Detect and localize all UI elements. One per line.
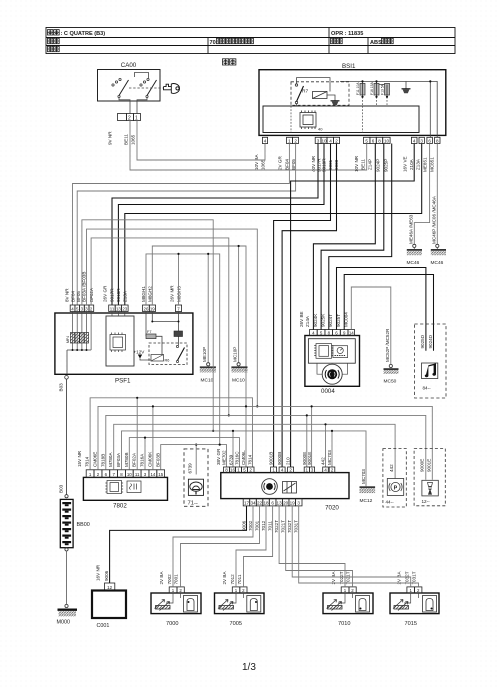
music note icon in 84 box xyxy=(422,363,438,379)
svg-text:40: 40 xyxy=(318,127,323,132)
svg-text:MC46: MC46 xyxy=(407,260,420,266)
svg-text:F16 15A: F16 15A xyxy=(370,81,374,95)
PSF1 fuse output bus xyxy=(67,350,91,374)
wire MC46P to ground MC46 xyxy=(436,144,438,245)
wire 9024T 0004 to 84 box xyxy=(337,268,426,351)
71 gauge icon xyxy=(188,479,203,495)
svg-text:ME10P: ME10P xyxy=(202,347,207,362)
svg-text:BSI1: BSI1 xyxy=(342,63,356,70)
svg-text:MC46P /MC06 /MC46A: MC46P /MC06 /MC46A xyxy=(431,195,436,244)
wire L1 CM06 net to 7020 xyxy=(152,246,246,467)
0004 gauge symbol xyxy=(333,346,348,358)
wire Z14P BSI to 0004 xyxy=(313,144,375,330)
svg-text:F13 5A: F13 5A xyxy=(381,83,385,95)
svg-text:M780B: M780B xyxy=(124,452,129,467)
svg-text:1065: 1065 xyxy=(131,134,136,145)
wire Z13A BSI to PSF1 xyxy=(125,144,422,306)
svg-text:10: 10 xyxy=(321,138,327,143)
svg-text:7031T: 7031T xyxy=(294,520,299,533)
svg-text:8: 8 xyxy=(378,138,381,143)
svg-text:210: 210 xyxy=(286,457,291,465)
wheel speed sensor 7015 xyxy=(390,593,439,614)
svg-text:6: 6 xyxy=(372,138,375,143)
wire MC004 0004 to MC50 ground xyxy=(351,287,391,364)
svg-text:MC851: MC851 xyxy=(430,157,435,172)
C001 connector box xyxy=(92,591,126,619)
svg-text:3: 3 xyxy=(317,138,320,143)
ground (R7) xyxy=(331,101,340,105)
svg-text:BB00: BB00 xyxy=(77,522,90,528)
svg-text:9006: 9006 xyxy=(104,570,109,581)
svg-text:7010: 7010 xyxy=(338,621,350,627)
svg-text:9017R: 9017R xyxy=(110,288,115,302)
R7 internal wires xyxy=(297,78,336,106)
MC50 ground xyxy=(384,328,399,385)
svg-text:Z13A: Z13A xyxy=(123,290,128,302)
wire BF03A PSF1 around to lower channel xyxy=(82,220,213,431)
svg-text:2V BA: 2V BA xyxy=(397,571,402,585)
7802 oscillator icon xyxy=(127,481,141,493)
svg-text:ME702: ME702 xyxy=(222,450,227,465)
svg-text:16: 16 xyxy=(230,468,236,473)
wire 1065 CA00 to BSI pin4 xyxy=(137,121,265,161)
svg-text:7022T: 7022T xyxy=(274,520,279,533)
svg-text:MC46: MC46 xyxy=(431,260,444,266)
wheel sensor wires 7032T/7031T to 7015 xyxy=(292,506,411,587)
wheel speed sensor 7000 xyxy=(151,593,201,614)
svg-text:MC12: MC12 xyxy=(360,498,373,504)
svg-text:3: 3 xyxy=(311,468,314,473)
wheel sensor wires 7012/7011 to 7005 xyxy=(236,506,266,587)
brake pad icon xyxy=(422,480,438,496)
svg-text:2: 2 xyxy=(331,468,334,473)
svg-text:11: 11 xyxy=(110,306,115,311)
svg-text:3: 3 xyxy=(297,501,300,506)
lower channel wire h7 ME702 xyxy=(161,445,227,470)
svg-text:MC52P /MC52R: MC52P /MC52R xyxy=(385,328,390,362)
svg-text:9001B: 9001B xyxy=(269,452,274,465)
0004 inner box xyxy=(308,339,355,364)
svg-text:11: 11 xyxy=(135,472,140,477)
svg-text:6739: 6739 xyxy=(228,454,233,465)
svg-text:2V BA: 2V BA xyxy=(159,571,164,585)
fuse F11 xyxy=(360,81,365,96)
svg-text:BF02A: BF02A xyxy=(132,452,137,467)
svg-text:4: 4 xyxy=(329,138,332,143)
key symbol xyxy=(164,84,180,94)
svg-text:BF05: BF05 xyxy=(76,291,81,302)
svg-text:7022T: 7022T xyxy=(339,571,344,584)
svg-text:34: 34 xyxy=(250,501,256,506)
svg-text:9024K: 9024K xyxy=(313,313,318,327)
svg-text:ABS: ABS xyxy=(370,40,382,46)
ground (BSI bus) xyxy=(402,89,411,93)
svg-text:7002: 7002 xyxy=(167,574,172,585)
svg-text:7005: 7005 xyxy=(230,621,242,627)
svg-text:70: 70 xyxy=(210,40,216,46)
svg-text:84--: 84-- xyxy=(423,386,432,391)
svg-text:44--: 44-- xyxy=(386,500,395,505)
svg-text:38V GR: 38V GR xyxy=(216,448,221,465)
svg-text:7032T: 7032T xyxy=(405,571,410,584)
svg-text:22: 22 xyxy=(257,501,263,506)
relay R6 dashed xyxy=(149,343,187,365)
PSF1 inner ECU box xyxy=(106,316,134,366)
svg-text:0004: 0004 xyxy=(321,388,335,395)
svg-text:17: 17 xyxy=(244,501,250,506)
svg-text:20: 20 xyxy=(283,501,289,506)
7020 bottom pins xyxy=(243,499,302,506)
svg-text:9024D: 9024D xyxy=(428,334,433,348)
svg-text:F7: F7 xyxy=(147,330,151,334)
svg-text:7816A: 7816A xyxy=(140,453,145,467)
svg-text:9025K: 9025K xyxy=(321,313,326,327)
svg-text:8: 8 xyxy=(436,138,439,143)
handbrake 44 dashed box xyxy=(383,449,406,507)
svg-text:5: 5 xyxy=(365,138,368,143)
svg-text:442: 442 xyxy=(321,457,326,465)
PSF1 engine fusebox xyxy=(55,313,193,374)
svg-text:7011: 7011 xyxy=(268,521,273,531)
svg-text:8V NR: 8V NR xyxy=(65,288,70,302)
svg-text:7802: 7802 xyxy=(113,503,127,510)
7020 ABS circle icon xyxy=(262,479,278,495)
wheel sensor wires 7002/7001 to 7000 xyxy=(173,506,253,587)
svg-text:1: 1 xyxy=(306,468,309,473)
svg-text:23: 23 xyxy=(122,306,127,311)
MC12 ground xyxy=(360,469,376,504)
BSI junction dots on bus xyxy=(361,80,431,98)
svg-text:1: 1 xyxy=(237,468,240,473)
0004 wire labels xyxy=(299,311,349,327)
BSI1 wire name labels xyxy=(254,153,435,172)
svg-text:9001E: 9001E xyxy=(307,452,312,465)
svg-text:71--: 71-- xyxy=(188,501,198,507)
wire 9001 BSI to 7020 xyxy=(274,144,331,468)
svg-text:6739: 6739 xyxy=(188,463,193,474)
svg-text:7011: 7011 xyxy=(237,574,242,584)
wire ME46A to ground MC46 xyxy=(414,144,429,245)
PSF1 top pins xyxy=(70,305,181,312)
7802 internal IC xyxy=(105,481,123,494)
svg-text:CM06L: CM06L xyxy=(241,450,246,465)
CA00 connector pins 2|1 xyxy=(118,114,141,121)
svg-text:442: 442 xyxy=(389,464,394,472)
svg-text:MC703: MC703 xyxy=(327,450,332,465)
parking brake icon xyxy=(387,479,403,496)
svg-text:9025D: 9025D xyxy=(420,334,425,348)
svg-text:14: 14 xyxy=(150,472,155,477)
R7 coil xyxy=(313,92,328,99)
svg-text:2V BA: 2V BA xyxy=(222,571,227,585)
svg-text:9018R: 9018R xyxy=(116,288,121,302)
0004 ABS logo circle xyxy=(322,364,342,384)
wire BF04 BSI to PSF1 xyxy=(73,144,290,306)
svg-text:10V NR: 10V NR xyxy=(354,155,359,172)
svg-text:7002: 7002 xyxy=(248,520,253,531)
7802 pins xyxy=(86,470,164,478)
svg-text:BF04: BF04 xyxy=(71,291,76,302)
svg-text:R7: R7 xyxy=(302,89,308,95)
wheel sensor wires 7022T/7021T to 7010 xyxy=(279,506,345,587)
svg-text:BE11: BE11 xyxy=(361,159,366,170)
BSI1 connector pins row xyxy=(262,137,440,143)
svg-text:MC10: MC10 xyxy=(201,378,214,384)
svg-text:7021T: 7021T xyxy=(281,520,286,533)
svg-text:BE11: BE11 xyxy=(124,134,129,145)
svg-text:26V BE: 26V BE xyxy=(299,311,304,327)
CA00 wire labels 9V NR / BE11 / 1065 xyxy=(108,131,136,145)
svg-text:9024T: 9024T xyxy=(328,314,333,327)
7802 wire labels xyxy=(77,450,160,467)
svg-text:10V BA: 10V BA xyxy=(254,153,259,170)
svg-text:2V GR: 2V GR xyxy=(278,156,283,170)
svg-text:7012: 7012 xyxy=(230,574,235,585)
svg-text:1/3: 1/3 xyxy=(242,662,256,673)
svg-text:7814: 7814 xyxy=(85,456,90,467)
ABS ECU 7020 xyxy=(221,473,349,499)
svg-text:10: 10 xyxy=(127,472,132,477)
svg-text:26: 26 xyxy=(144,306,149,311)
svg-text:2: 2 xyxy=(128,115,131,121)
PSF1 internal F7 circuit xyxy=(146,312,179,355)
BSI internal IC xyxy=(300,111,316,130)
svg-text:ME851: ME851 xyxy=(423,157,428,172)
svg-text:PSF1: PSF1 xyxy=(115,378,131,385)
7020 top wire labels xyxy=(216,448,332,465)
svg-text:14: 14 xyxy=(349,330,354,335)
fuse supply bus xyxy=(340,81,437,137)
wire BF05 BSI to PSF1 xyxy=(77,144,295,306)
wheel speed sensor 7005 xyxy=(215,593,265,614)
svg-text:C001: C001 xyxy=(97,623,110,629)
svg-text:1: 1 xyxy=(272,468,275,473)
svg-text:P: P xyxy=(394,485,398,491)
svg-text:7012: 7012 xyxy=(261,520,266,531)
svg-text:26V MR: 26V MR xyxy=(170,285,175,302)
wire BB00 to M000 xyxy=(66,551,68,604)
svg-text:CM06E: CM06E xyxy=(93,452,98,467)
relay R7 dashed box xyxy=(291,82,349,106)
svg-text:MC10: MC10 xyxy=(232,378,245,384)
svg-text:7814: 7814 xyxy=(248,454,253,465)
wire BE11 CA00 to BSI pin5 xyxy=(130,121,367,171)
svg-text:7021T: 7021T xyxy=(346,571,351,584)
svg-text:9006: 9006 xyxy=(242,520,247,531)
svg-text:Z13A: Z13A xyxy=(416,158,421,170)
wheel speed sensor 7010 xyxy=(323,593,373,614)
svg-text:MC50: MC50 xyxy=(384,379,397,385)
lower channel wire h3 to 12 box xyxy=(106,415,426,479)
dark component under pin7 xyxy=(174,331,183,337)
lower channel wire h2 CM06 to 12 box xyxy=(98,406,432,479)
svg-text:16V NR: 16V NR xyxy=(96,564,101,581)
7020 bottom wire labels xyxy=(242,520,299,533)
svg-text:CM06K: CM06K xyxy=(147,451,152,467)
svg-text:26V GR: 26V GR xyxy=(103,285,108,302)
svg-text:19: 19 xyxy=(290,501,296,506)
svg-text:1: 1 xyxy=(135,115,138,121)
svg-text:Z14A: Z14A xyxy=(305,315,310,327)
svg-text:9000E: 9000E xyxy=(420,459,425,472)
wire 9006 7020 to C001 xyxy=(110,506,247,583)
svg-text:4: 4 xyxy=(264,138,267,143)
instrument cluster 0004 xyxy=(305,336,360,387)
svg-text:13: 13 xyxy=(277,501,283,506)
svg-text:B03: B03 xyxy=(59,383,64,392)
MC46 ground right xyxy=(431,195,447,266)
svg-text:M8GH1: M8GH1 xyxy=(141,286,146,302)
svg-text:BF03A: BF03A xyxy=(116,452,121,467)
svg-text:40V NR: 40V NR xyxy=(311,155,316,172)
svg-text:MC10P: MC10P xyxy=(233,347,238,362)
battery junction BB00 xyxy=(65,495,68,498)
svg-text:1065: 1065 xyxy=(261,159,266,170)
wire 9025T 0004 to 84 box xyxy=(344,275,433,351)
svg-text:12--: 12-- xyxy=(422,499,431,504)
7020 top pins xyxy=(224,467,335,473)
svg-text:9001E: 9001E xyxy=(427,459,432,472)
svg-text:7015: 7015 xyxy=(405,621,417,627)
svg-text:19: 19 xyxy=(150,306,155,311)
svg-text:2: 2 xyxy=(335,138,338,143)
CA00 switch contacts xyxy=(112,78,149,97)
svg-text:2: 2 xyxy=(294,138,297,143)
svg-text:16V VE: 16V VE xyxy=(403,156,408,172)
svg-text:Z14P: Z14P xyxy=(368,159,373,170)
MC10 ground left xyxy=(200,347,216,384)
svg-text:10: 10 xyxy=(384,138,390,143)
svg-text:MF4: MF4 xyxy=(66,336,70,343)
svg-text:1: 1 xyxy=(288,138,291,143)
fuse F16 xyxy=(374,81,379,96)
wire BF03B PSF1 around to lower channel xyxy=(87,229,258,406)
PSF1 bottom exit to B03/BB00 xyxy=(65,376,69,380)
wire 9025P BSI to 0004 xyxy=(329,144,392,330)
svg-text:R6: R6 xyxy=(165,359,170,363)
svg-text:BF03B: BF03B xyxy=(155,453,160,467)
amplifier 84 dashed box xyxy=(415,324,447,398)
svg-text:7032T: 7032T xyxy=(287,520,292,533)
svg-text:BF04: BF04 xyxy=(285,159,290,170)
MC10 ground right xyxy=(231,347,247,384)
7020 connector icon xyxy=(283,482,297,494)
svg-text:18: 18 xyxy=(263,501,269,506)
svg-text:7816C: 7816C xyxy=(235,451,240,465)
svg-text:: C QUATRE (B3): : C QUATRE (B3) xyxy=(61,31,106,37)
0004 IC symbol xyxy=(314,344,333,359)
svg-text:OPR : 11835: OPR : 11835 xyxy=(331,31,363,37)
R7 switch xyxy=(295,84,297,104)
svg-text:4: 4 xyxy=(413,138,416,143)
svg-text:2: 2 xyxy=(249,468,252,473)
PSF1 wire labels xyxy=(65,272,182,302)
svg-text:7031T: 7031T xyxy=(411,571,416,584)
svg-text:M780A: M780A xyxy=(108,452,113,467)
lower channel wire h4 442 to 44 box xyxy=(114,424,395,478)
svg-text:M000: M000 xyxy=(57,620,71,626)
svg-text:4: 4 xyxy=(281,468,284,473)
svg-text:M8GH3: M8GH3 xyxy=(177,286,182,302)
ECU 7802 xyxy=(83,477,167,500)
svg-text:15: 15 xyxy=(158,472,163,477)
svg-text:8: 8 xyxy=(225,468,228,473)
svg-text:7818B: 7818B xyxy=(100,454,105,467)
lower channel wire h1 7814 xyxy=(90,398,252,470)
MC46 ground left xyxy=(407,214,423,266)
svg-text:+12V: +12V xyxy=(134,350,146,355)
wire BF02A PSF1 around to lower channel xyxy=(91,238,229,416)
svg-text:7001: 7001 xyxy=(174,574,179,585)
svg-text:MC703: MC703 xyxy=(361,469,366,484)
svg-text:5: 5 xyxy=(243,468,246,473)
dashed link to key xyxy=(129,87,164,89)
C001 pin xyxy=(105,583,115,591)
brake wear 12 dashed box xyxy=(414,449,445,506)
svg-text:M8GH2: M8GH2 xyxy=(148,286,153,302)
svg-text:2: 2 xyxy=(289,468,292,473)
fuse F13 xyxy=(385,83,390,96)
svg-text:7000: 7000 xyxy=(166,621,178,627)
wire 9018R BSI to PSF1 xyxy=(118,144,324,306)
svg-text:7020: 7020 xyxy=(325,505,339,512)
svg-text:13: 13 xyxy=(116,306,121,311)
svg-text:7001: 7001 xyxy=(255,520,260,531)
svg-text:6: 6 xyxy=(428,138,431,143)
CA00 internal wires xyxy=(119,73,149,114)
PSF1 fuses MF xyxy=(73,312,92,351)
svg-text:210A: 210A xyxy=(409,158,414,170)
svg-text:2V BA: 2V BA xyxy=(331,571,336,585)
M000 ground xyxy=(57,604,78,625)
svg-text:15V NR: 15V NR xyxy=(77,450,82,467)
svg-text:3: 3 xyxy=(420,138,423,143)
svg-text:CA00: CA00 xyxy=(121,62,137,69)
svg-text:9V NR: 9V NR xyxy=(108,131,113,145)
svg-text:6: 6 xyxy=(271,501,274,506)
wire L2 M8GH net to 7020 xyxy=(146,254,220,445)
svg-text:ME46A /ME63: ME46A /ME63 xyxy=(408,214,413,244)
svg-text:9024P: 9024P xyxy=(376,159,381,172)
title 原理 xyxy=(223,59,229,65)
fan unit 71 dashed box xyxy=(184,449,208,506)
0004 pins xyxy=(310,330,355,336)
svg-text:F11 10A: F11 10A xyxy=(356,82,360,95)
lower channel wire h5 MC703 to MC12 xyxy=(122,431,367,486)
wire 210A BSI to 7020 xyxy=(291,144,415,468)
svg-text:9000B: 9000B xyxy=(277,452,282,465)
lower channel wire h6 7816 xyxy=(129,438,239,470)
wire 9000 BSI to 7020 xyxy=(282,144,336,468)
wire 9017R BSI to PSF1 xyxy=(112,144,318,306)
svg-text:B03: B03 xyxy=(59,484,64,493)
header table xyxy=(46,28,455,54)
svg-text:4: 4 xyxy=(324,468,327,473)
fuse output dashed stubs xyxy=(291,97,387,133)
71 feed wire from h7 xyxy=(195,445,197,475)
wire 9024P BSI to 0004 xyxy=(321,144,384,330)
